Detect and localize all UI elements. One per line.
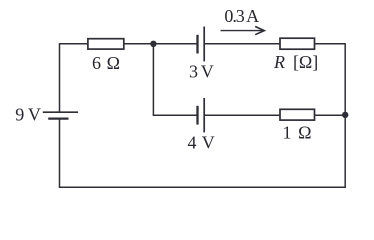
wire: bottom (bottom-left corner to bottom-right corner) xyxy=(59,186,346,188)
wire: left side lower (9V battery down to bottom-left corner) xyxy=(59,119,61,188)
wire: middle branch horizontal left (to 4V battery) xyxy=(153,114,198,116)
battery 3V xyxy=(198,27,205,62)
wire: top-right segment (from 3V battery to top-right corner) xyxy=(204,43,345,45)
label R [ohm] xyxy=(273,52,318,72)
resistor 1 ohm (box) xyxy=(280,109,315,120)
wire: right side (top-right corner to bottom-right corner) xyxy=(344,43,346,188)
wire: left side upper (top-left corner down to 9V battery) xyxy=(59,43,61,112)
battery 4V xyxy=(198,98,205,132)
svg-text:6 Ω: 6 Ω xyxy=(92,53,120,73)
resistor R (box) xyxy=(280,38,315,49)
svg-text:1 Ω: 1 Ω xyxy=(283,122,312,142)
current direction arrow xyxy=(221,27,265,35)
svg-text:3 V: 3 V xyxy=(189,61,214,81)
svg-text:9 V: 9 V xyxy=(15,104,41,124)
svg-text:R: R xyxy=(273,52,285,72)
svg-text:0.3 A: 0.3 A xyxy=(224,6,259,26)
wire: middle branch vertical (node A down) xyxy=(152,44,154,115)
wire: top-left segment (from left loop corner to 3V battery) xyxy=(60,43,198,45)
svg-text:4 V: 4 V xyxy=(188,132,215,152)
node A (junction dot after 6 ohm) xyxy=(150,41,156,47)
wire: middle branch horizontal right (4V battery to right node) xyxy=(204,114,345,116)
node B (junction dot on right side) xyxy=(342,112,348,118)
battery 9V xyxy=(43,112,78,118)
svg-text:[Ω]: [Ω] xyxy=(293,52,318,72)
resistor 6 ohm (box) xyxy=(88,39,124,49)
